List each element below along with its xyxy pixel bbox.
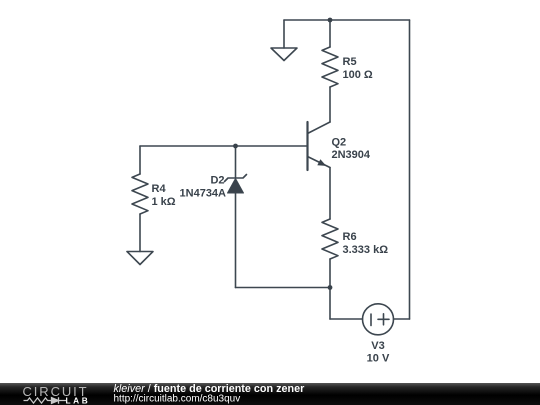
node junction bottom bbox=[328, 285, 333, 290]
voltage source V3 bbox=[363, 304, 394, 335]
wire top horizontal bbox=[284, 19, 410, 21]
zener diode D2 bbox=[225, 175, 247, 194]
svg-text:R4: R4 bbox=[152, 183, 167, 195]
svg-text:V3: V3 bbox=[371, 340, 384, 352]
wire D2 to R6 node bbox=[236, 287, 331, 289]
wire D2 top bbox=[235, 146, 237, 178]
svg-text:3.333 kΩ: 3.333 kΩ bbox=[343, 244, 389, 256]
wire R4 to ground bbox=[139, 214, 141, 252]
svg-text:1 kΩ: 1 kΩ bbox=[152, 196, 176, 208]
wire bottom to V3 bbox=[330, 318, 363, 320]
svg-text:1N4734A: 1N4734A bbox=[180, 188, 227, 200]
wire R5 to collector bbox=[329, 87, 331, 122]
svg-text:100 Ω: 100 Ω bbox=[343, 69, 373, 81]
resistor R4 bbox=[132, 174, 148, 214]
svg-text:Q2: Q2 bbox=[332, 137, 347, 149]
transistor Q2 bbox=[308, 122, 331, 170]
wire base bbox=[140, 145, 308, 147]
node junction D2 base bbox=[233, 144, 238, 149]
svg-text:http://circuitlab.com/c8u3quv: http://circuitlab.com/c8u3quv bbox=[114, 393, 241, 404]
node junction top bbox=[328, 18, 333, 23]
wire ground stub top bbox=[283, 20, 285, 48]
wire V3 to right rail bbox=[394, 318, 410, 320]
svg-text:LAB: LAB bbox=[66, 395, 91, 405]
svg-text:10 V: 10 V bbox=[367, 353, 390, 365]
ground top bbox=[271, 48, 297, 61]
svg-text:2N3904: 2N3904 bbox=[332, 149, 371, 161]
svg-text:R6: R6 bbox=[343, 231, 357, 243]
svg-text:D2: D2 bbox=[210, 175, 224, 187]
wire R4 top bbox=[139, 146, 141, 174]
resistor R5 bbox=[322, 47, 338, 87]
wire D2 down bbox=[235, 193, 237, 288]
footer bar bbox=[0, 383, 540, 405]
wire right rail bbox=[409, 20, 411, 319]
logo symbol resistor-diode bbox=[24, 397, 67, 403]
wire R5 top bbox=[329, 20, 331, 47]
wire R6 down bbox=[329, 259, 331, 319]
wire emitter down bbox=[329, 168, 331, 220]
ground bottom bbox=[127, 252, 153, 265]
resistor R6 bbox=[322, 219, 338, 259]
svg-text:R5: R5 bbox=[343, 56, 357, 68]
